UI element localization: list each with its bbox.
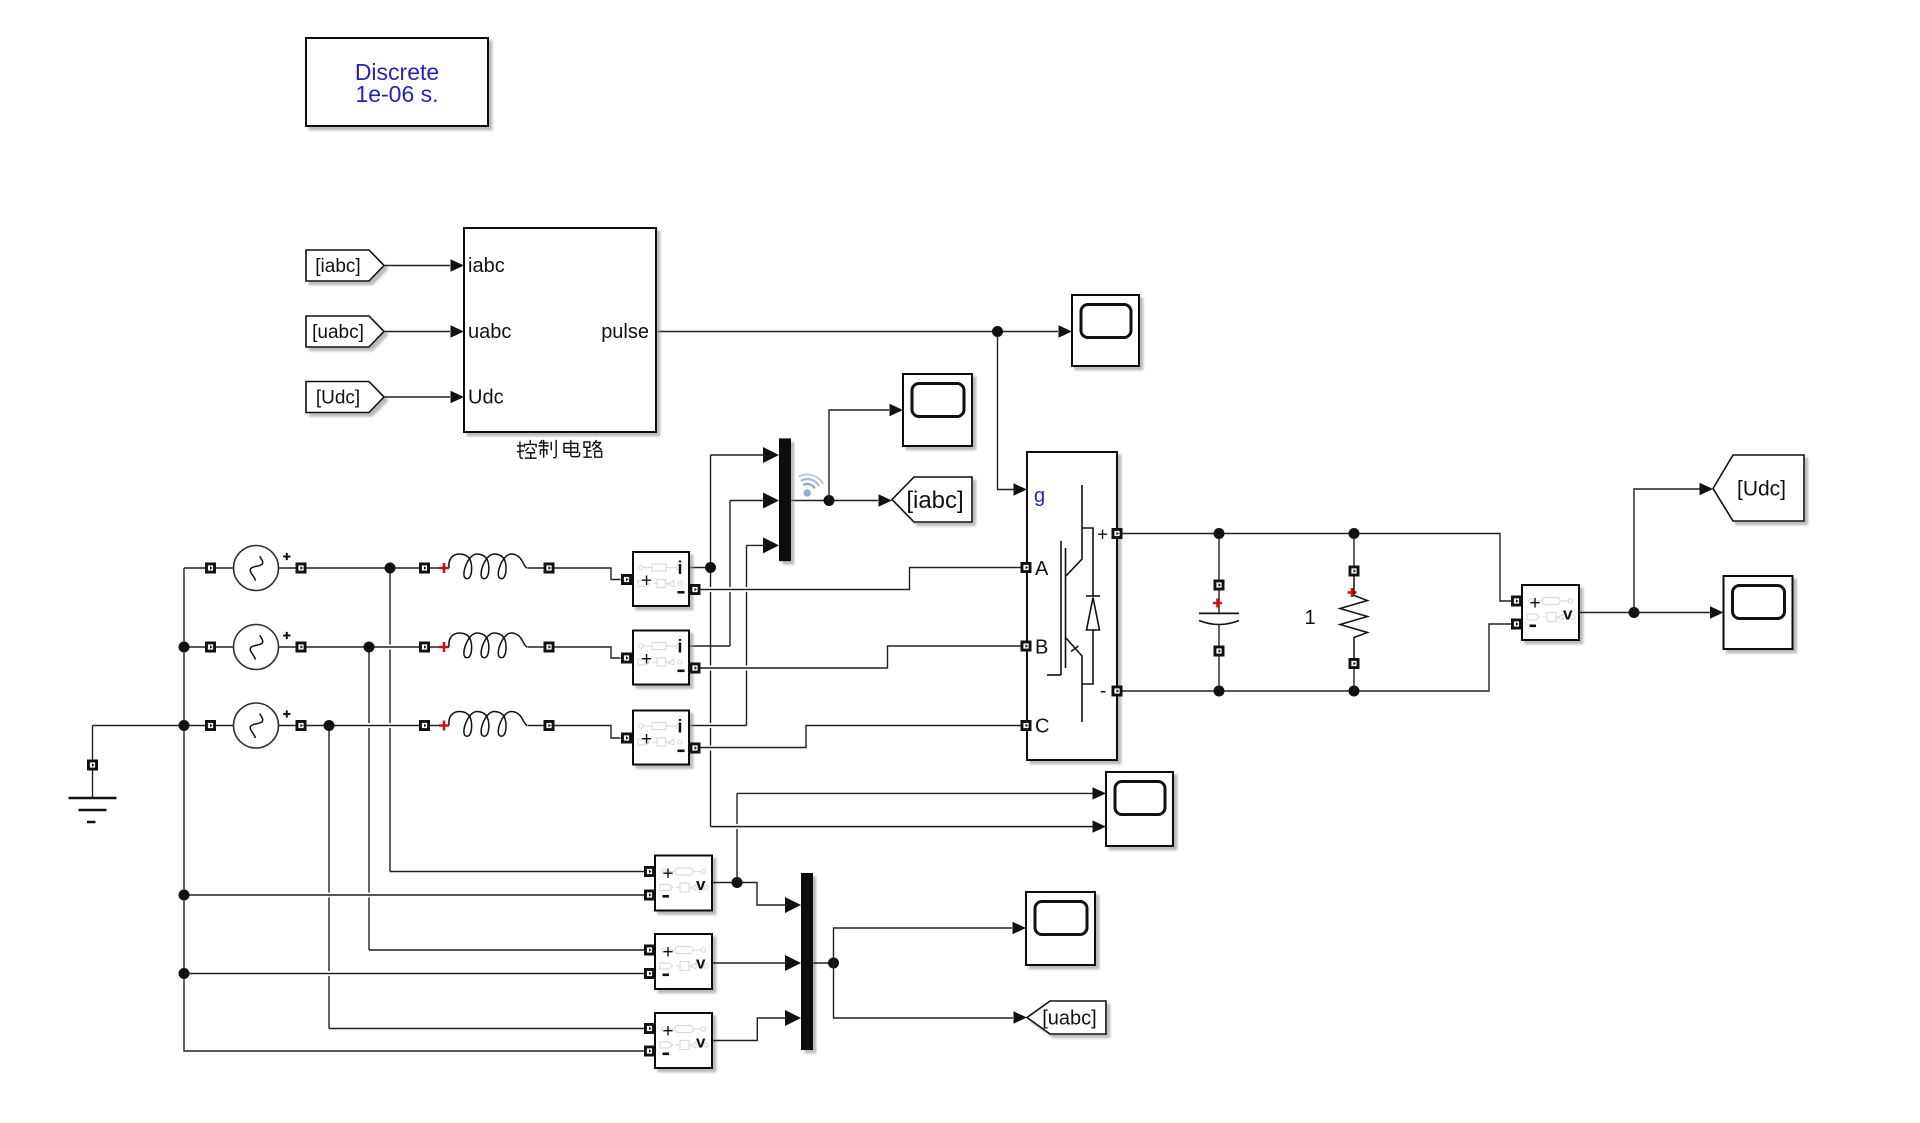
node: phase A tap junction (385, 563, 396, 574)
wire: i1 node up to mux and down to scope (710, 455, 712, 568)
wire: phase B inductor to current sensor (430, 647, 621, 658)
svg-text:i: i (678, 558, 683, 578)
svg-text:[iabc]: [iabc] (906, 487, 963, 514)
wire: mux2 output (813, 962, 834, 964)
caption: control circuit (Chinese) (517, 440, 536, 458)
current measurement i1 (633, 552, 689, 606)
wire: v2 output (712, 962, 788, 964)
node: plus rail capacitor junction (1214, 528, 1225, 539)
resistor load 1 (1353, 534, 1355, 692)
wire: mux2 to scope (834, 928, 1013, 963)
wire: i3 output to mux (689, 725, 747, 727)
powergui block Discrete 1e-06 s. (306, 38, 488, 126)
wire: phase B source right segment (279, 646, 420, 648)
wire: left neutral bus (184, 568, 650, 1051)
capacitor C (1218, 534, 1220, 692)
wire: mux1 to scope2 (829, 410, 889, 501)
svg-text:A: A (1035, 558, 1049, 580)
svg-text:[Udc]: [Udc] (316, 388, 360, 409)
goto tag iabc (879, 494, 893, 506)
wire: pulse to scope1 and bridge g (656, 332, 1058, 490)
wire: phase A source left segment (216, 567, 234, 569)
scope Scope5 (uabc) (1013, 922, 1027, 934)
svg-text:+: + (1530, 593, 1541, 614)
wire: i2 minus to bridge B (701, 646, 1022, 668)
from tag Udc (306, 382, 384, 413)
svg-text:C: C (1035, 716, 1049, 738)
svg-text:v: v (1563, 605, 1573, 624)
svg-text:iabc: iabc (468, 255, 505, 277)
node: plus rail resistor junction (1349, 528, 1360, 539)
svg-text:+: + (641, 571, 652, 592)
node: v1 output junction (732, 877, 743, 888)
AC voltage source Va (234, 546, 279, 591)
wire: mux2 to goto uabc (834, 963, 1014, 1018)
wire: mux1 output (791, 500, 878, 502)
AC voltage source Vc (234, 703, 279, 748)
wire: phase A source to bus (184, 567, 205, 569)
wire: from uabc to controller (384, 331, 450, 333)
svg-text:B: B (1035, 637, 1048, 659)
current measurement i2 (633, 631, 689, 685)
voltage measurement v2 (655, 934, 712, 989)
wire: phase B tap down to v2 plus (368, 647, 370, 893)
controller block (control circuit) (464, 228, 656, 432)
voltage measurement v1 (655, 856, 712, 911)
wireless annotation icon (794, 472, 825, 500)
wire: Udc to goto tag (1634, 489, 1700, 613)
goto tag Udc (1700, 483, 1714, 495)
scope Scope4 (Udc) (1710, 606, 1724, 618)
wire: phase B source left segment (216, 646, 234, 648)
scope Scope1 (pulse) (1059, 325, 1073, 337)
wire: phase C source left segment (216, 725, 234, 727)
svg-text:[uabc]: [uabc] (1042, 1008, 1096, 1030)
svg-text:g: g (1034, 485, 1045, 507)
svg-text:i: i (678, 637, 683, 657)
node: bus phase C junction (179, 720, 190, 731)
IGBT universal bridge (1027, 452, 1117, 760)
svg-text:+: + (663, 942, 674, 963)
svg-text:+: + (641, 729, 652, 750)
wire: phase A inductor to current sensor (430, 568, 621, 580)
voltage measurement v3 (655, 1013, 712, 1068)
voltage measurement Udc (1522, 585, 1579, 640)
wire: from Udc to controller (384, 396, 450, 398)
from tag uabc (306, 316, 384, 347)
inductor La (449, 554, 527, 579)
svg-text:pulse: pulse (601, 321, 649, 343)
wire: phase C ground to bus (93, 725, 206, 727)
svg-text:-: - (1100, 681, 1106, 702)
wire: i3 minus to bridge C (701, 726, 1022, 748)
svg-text:+: + (663, 1021, 674, 1042)
wire: i1 output to node (689, 567, 711, 569)
wire: Udc output (1579, 612, 1710, 614)
svg-text:1e-06 s.: 1e-06 s. (355, 81, 438, 107)
svg-text:i: i (678, 717, 683, 737)
node: bus v1- junction (179, 890, 190, 901)
wire: phase A tap down to v1 plus (389, 568, 391, 872)
from tag iabc (306, 250, 384, 281)
svg-text:[uabc]: [uabc] (312, 322, 364, 343)
goto tag uabc (1014, 1011, 1028, 1023)
svg-text:v: v (696, 1033, 706, 1052)
svg-text:uabc: uabc (468, 321, 511, 343)
scope Scope3 (two inputs) (1093, 787, 1107, 799)
wire: phase C inductor to current sensor (430, 726, 621, 739)
wire: phase C tap down to v3 plus (328, 726, 330, 1029)
node: bus v2- junction (179, 968, 190, 979)
wire: i1 to scope (711, 826, 1093, 828)
ground (92, 726, 94, 799)
inductor Lc (449, 712, 527, 737)
wire: from iabc to controller (384, 265, 450, 267)
wire: bus to v2 minus (184, 973, 650, 975)
wire: DC plus rail (1123, 534, 1516, 602)
wire: v1 to scope (736, 793, 738, 882)
mux Mux2 (801, 873, 813, 1050)
wire: v1 output (712, 883, 788, 906)
svg-text:[Udc]: [Udc] (1737, 477, 1786, 500)
svg-text:[iabc]: [iabc] (315, 256, 360, 277)
wire: i1 minus to bridge A (701, 568, 1022, 590)
svg-text:+: + (663, 864, 674, 885)
mux Mux1 (779, 438, 791, 561)
wire: i2 output to mux (689, 645, 730, 647)
node: Udc output junction (1629, 607, 1640, 618)
AC voltage source Vb (234, 625, 279, 670)
node: phase B tap junction (364, 642, 375, 653)
svg-text:1: 1 (1304, 607, 1315, 629)
node: mux1 output junction (824, 495, 835, 506)
node: pulse junction (992, 326, 1003, 337)
svg-text:+: + (641, 649, 652, 670)
node: minus rail resistor junction (1349, 686, 1360, 697)
scope Scope2 (890, 404, 904, 416)
node: i1 output junction (705, 562, 716, 573)
svg-text:v: v (696, 875, 706, 894)
wire: bus to v1 minus (184, 894, 650, 896)
wire: phase C source right segment (279, 725, 420, 727)
node: minus rail capacitor junction (1214, 686, 1225, 697)
node: mux2 output junction (828, 958, 839, 969)
svg-text:v: v (696, 954, 706, 973)
wire: phase A source right segment (279, 567, 420, 569)
wire: phase B source to bus (184, 646, 205, 648)
svg-text:Udc: Udc (468, 387, 504, 409)
svg-text:+: + (1097, 525, 1108, 546)
wire: DC minus rail (1123, 624, 1516, 691)
node: phase C tap junction (324, 720, 335, 731)
inductor Lb (449, 633, 527, 658)
current measurement i3 (633, 711, 689, 765)
wire: v3 output (712, 1018, 788, 1041)
node: bus phase B junction (179, 642, 190, 653)
